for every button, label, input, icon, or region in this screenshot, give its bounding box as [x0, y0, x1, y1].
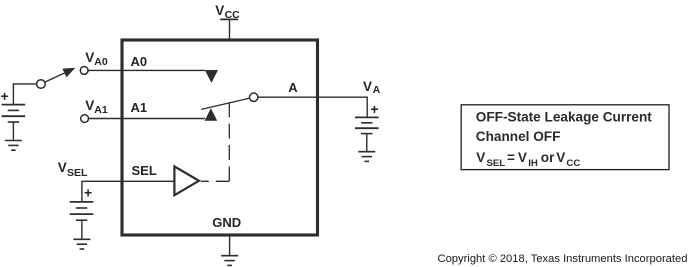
stimulus switch circle	[37, 80, 46, 89]
wire VA0 to A0 channel	[88, 69, 205, 71]
wire battery V1 to ground	[12, 122, 14, 141]
svg-text:+: +	[84, 185, 92, 201]
svg-text:+: +	[370, 101, 378, 117]
wire battery VSEL to ground	[81, 220, 83, 239]
terminal circle VA0	[80, 67, 88, 75]
wire A output	[258, 97, 367, 117]
svg-text:V: V	[363, 79, 372, 94]
svg-text:A0: A0	[94, 56, 108, 68]
svg-text:V: V	[518, 150, 527, 165]
wire battery VA to ground	[366, 134, 368, 152]
VA label	[363, 79, 381, 96]
ground for battery V1	[5, 141, 22, 151]
svg-text:SEL: SEL	[132, 163, 157, 178]
note text line 3	[476, 150, 580, 169]
ground for battery VA	[358, 152, 375, 162]
svg-text:=: =	[507, 150, 515, 165]
svg-text:SEL: SEL	[487, 158, 506, 169]
svg-text:GND: GND	[212, 215, 241, 230]
svg-text:or: or	[541, 150, 555, 165]
terminal circle VA1	[81, 115, 89, 123]
svg-text:Copyright © 2018, Texas Instru: Copyright © 2018, Texas Instruments Inco…	[438, 253, 688, 265]
stimulus arrow head	[62, 68, 75, 78]
battery VSEL plates	[70, 202, 94, 220]
A1 channel contact arrow (up)	[205, 108, 218, 121]
svg-text:V: V	[476, 150, 485, 165]
svg-text:V: V	[556, 150, 565, 165]
node VA1 label	[85, 98, 108, 116]
svg-text:A1: A1	[131, 100, 148, 115]
switch pole circle	[250, 93, 258, 101]
svg-text:Channel OFF: Channel OFF	[476, 129, 561, 144]
dashed control line horizontal run	[201, 180, 229, 182]
wire VSEL to SEL pin	[82, 181, 174, 202]
svg-text:A1: A1	[94, 104, 108, 116]
ground symbol below box	[221, 256, 238, 266]
VCC label	[215, 3, 240, 21]
ground for battery VSEL	[73, 239, 90, 249]
svg-text:IH: IH	[528, 158, 538, 169]
dashed control line from buffer to switch	[228, 102, 230, 181]
svg-text:V: V	[85, 98, 94, 113]
svg-text:A0: A0	[131, 54, 148, 69]
svg-text:CC: CC	[566, 158, 580, 169]
stimulus switch blade	[45, 73, 64, 82]
VSEL label	[58, 160, 88, 179]
A0 channel contact arrow (down)	[205, 70, 218, 83]
svg-text:SEL: SEL	[67, 167, 88, 179]
svg-text:V: V	[85, 50, 94, 65]
svg-text:V: V	[58, 160, 67, 175]
svg-text:OFF-State Leakage Current: OFF-State Leakage Current	[476, 110, 652, 125]
svg-text:A: A	[288, 80, 298, 95]
svg-text:A: A	[373, 84, 381, 96]
battery VA plates	[355, 117, 379, 133]
IC box outline U1	[122, 40, 318, 235]
wire VA1 to A1 channel	[89, 118, 205, 120]
switch blade A1 to pole	[201, 98, 249, 109]
wire VCC to box top	[229, 19, 231, 40]
node VA0 label	[85, 50, 108, 68]
wire battery V1 to stimulus switch	[13, 84, 36, 105]
VCC supply bar	[220, 18, 238, 20]
battery V1 plates	[2, 105, 26, 122]
note box frame	[461, 105, 669, 170]
svg-text:+: +	[1, 88, 9, 104]
buffer driver triangle	[174, 166, 199, 195]
svg-text:V: V	[215, 3, 224, 18]
wire GND to ground	[229, 236, 231, 256]
